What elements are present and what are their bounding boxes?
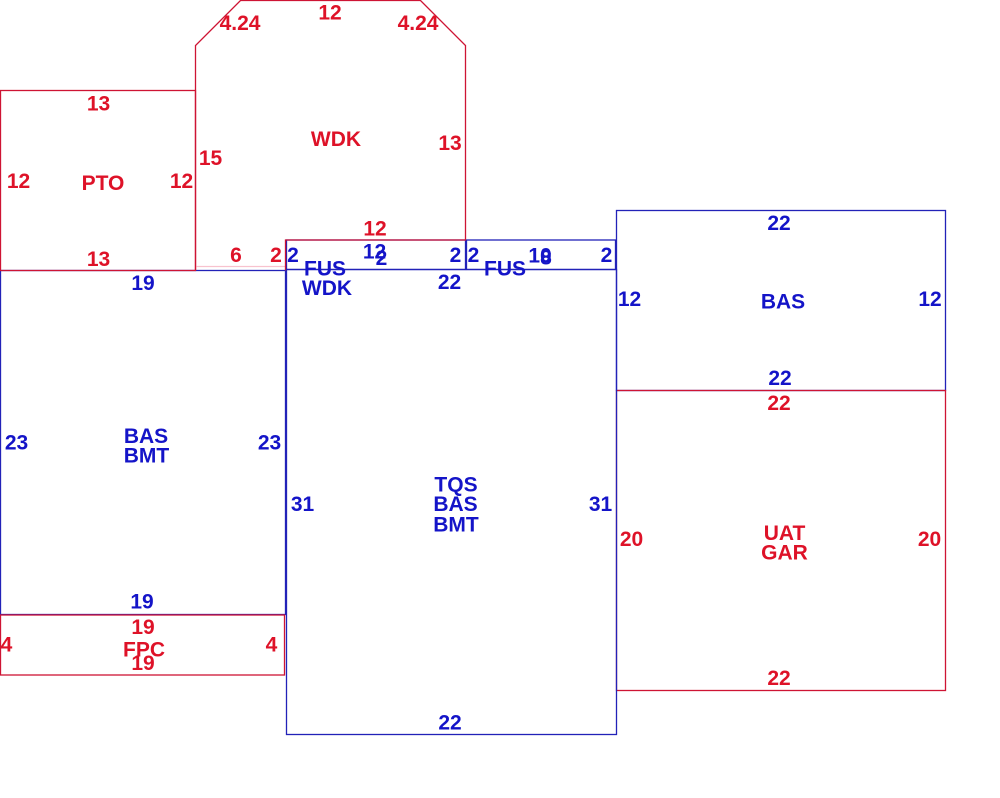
svg-text:2: 2 <box>287 244 299 267</box>
svg-text:23: 23 <box>5 432 28 455</box>
svg-text:12: 12 <box>318 2 341 25</box>
svg-text:FUS: FUS <box>484 258 526 281</box>
svg-text:2: 2 <box>270 244 282 267</box>
svg-text:12: 12 <box>170 170 193 193</box>
svg-text:20: 20 <box>918 528 941 551</box>
svg-text:19: 19 <box>130 591 153 614</box>
svg-text:WDK: WDK <box>311 128 361 151</box>
svg-text:20: 20 <box>620 528 643 551</box>
area FUS WDK (small blue box) <box>287 240 466 270</box>
svg-text:4: 4 <box>1 634 13 657</box>
area TQS BAS BMT (big blue outline) <box>287 270 617 735</box>
svg-text:2: 2 <box>601 244 613 267</box>
svg-text:WDK: WDK <box>302 277 352 300</box>
svg-text:BMT: BMT <box>124 445 170 468</box>
svg-text:2: 2 <box>468 244 480 267</box>
svg-text:12: 12 <box>7 170 30 193</box>
svg-text:12: 12 <box>618 288 641 311</box>
svg-text:19: 19 <box>131 272 154 295</box>
svg-text:13: 13 <box>438 132 461 155</box>
svg-text:22: 22 <box>767 667 790 690</box>
svg-text:12: 12 <box>918 288 941 311</box>
area WDK faint bottom edge <box>196 266 286 268</box>
area FPC (bottom left, red outline) <box>1 615 285 675</box>
svg-text:2: 2 <box>450 244 462 267</box>
svg-text:BAS: BAS <box>761 291 805 314</box>
area FUS (small blue box right) <box>467 240 616 270</box>
svg-text:12: 12 <box>363 218 386 241</box>
area BAS BMT (left, blue outline) <box>1 271 286 615</box>
svg-text:4: 4 <box>266 634 278 657</box>
svg-text:2: 2 <box>376 247 388 270</box>
svg-text:19: 19 <box>131 652 154 675</box>
svg-text:BMT: BMT <box>433 514 479 537</box>
area WDK (red outline with chamfered top) <box>196 1 466 271</box>
svg-text:22: 22 <box>767 392 790 415</box>
svg-text:23: 23 <box>258 432 281 455</box>
area PTO (red outline) <box>1 91 196 271</box>
svg-text:22: 22 <box>438 712 461 735</box>
svg-text:13: 13 <box>87 248 110 271</box>
svg-text:6: 6 <box>230 244 242 267</box>
svg-text:8: 8 <box>540 247 552 270</box>
svg-text:13: 13 <box>87 93 110 116</box>
svg-text:15: 15 <box>199 147 223 170</box>
svg-text:GAR: GAR <box>761 542 808 565</box>
svg-text:4.24: 4.24 <box>220 12 261 35</box>
svg-text:PTO: PTO <box>82 172 125 195</box>
svg-text:19: 19 <box>131 616 154 639</box>
svg-text:31: 31 <box>589 493 613 516</box>
svg-text:31: 31 <box>291 493 315 516</box>
area BAS (right upper, blue outline) <box>617 211 946 391</box>
area UAT GAR (right lower, red outline) <box>617 391 946 691</box>
svg-text:22: 22 <box>768 367 791 390</box>
svg-text:4.24: 4.24 <box>398 12 439 35</box>
svg-text:22: 22 <box>767 212 790 235</box>
svg-text:22: 22 <box>438 271 461 294</box>
